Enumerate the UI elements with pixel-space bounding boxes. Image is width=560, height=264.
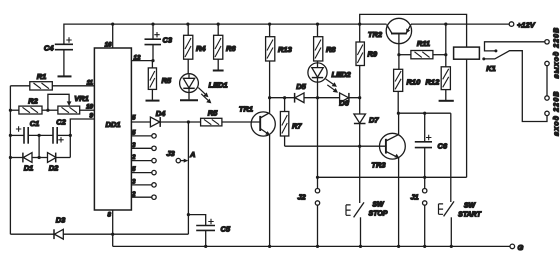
svg-text:R13: R13 [278, 45, 293, 54]
svg-text:выход 220В: выход 220В [553, 27, 560, 79]
wire left rail [9, 86, 11, 234]
transistor TR2 [368, 18, 412, 54]
relay coil K1 [454, 47, 496, 177]
wire R1 to left rail [10, 85, 29, 87]
relay K1 contact group [482, 42, 547, 122]
node rail junctions [111, 23, 447, 26]
svg-text:LED2: LED2 [332, 70, 352, 79]
wire output-input link [546, 66, 548, 96]
ground (C4) [58, 75, 72, 77]
svg-text:D5: D5 [296, 82, 306, 91]
diode D5 [295, 82, 307, 103]
resistor R9 [356, 24, 378, 98]
wire to SW START [450, 113, 452, 202]
wire C1C2 mid to D1D2 [38, 135, 40, 157]
svg-text:12: 12 [134, 55, 141, 62]
svg-text:J1: J1 [410, 193, 418, 202]
capacitor C5 [188, 215, 231, 247]
wire D4 to R5b [160, 121, 200, 123]
wire TR3 base net [285, 145, 386, 147]
svg-text:R7: R7 [292, 122, 302, 131]
wire TR2 bypass to K1 [360, 14, 467, 47]
svg-text:D7: D7 [369, 116, 379, 125]
resistor R12 [426, 67, 451, 100]
svg-text:R5: R5 [162, 76, 172, 85]
wire rail-R2 [10, 109, 19, 111]
svg-text:R8: R8 [326, 45, 336, 54]
switch SW STOP [346, 146, 388, 246]
svg-text:A: A [189, 150, 195, 159]
svg-text:D4: D4 [156, 109, 166, 118]
svg-text:G: G [518, 243, 524, 252]
svg-text:C6: C6 [438, 142, 448, 151]
resistor R13 [266, 24, 293, 61]
IC DD1 [94, 48, 131, 210]
svg-text:8: 8 [108, 212, 112, 219]
svg-text:16: 16 [105, 42, 112, 49]
capacitor C6 [415, 113, 448, 177]
wire TR3 emitter [398, 158, 400, 247]
resistor R5a [148, 61, 172, 100]
ground (R5a) [146, 100, 160, 102]
capacitor C3 [145, 24, 173, 61]
wire TR1 emitter [269, 135, 271, 247]
svg-text:5: 5 [132, 166, 136, 173]
resistor R10 [394, 55, 421, 113]
svg-text:C1: C1 [30, 119, 40, 128]
svg-text:D6: D6 [339, 99, 349, 108]
diode D6 [339, 93, 349, 108]
resistor R11 [399, 39, 446, 59]
svg-text:C3: C3 [163, 36, 173, 45]
svg-text:+12V: +12V [517, 21, 536, 30]
wire TR1 collector [269, 61, 271, 113]
svg-text:2: 2 [131, 154, 136, 161]
svg-text:R1: R1 [37, 72, 47, 81]
wire pin5 net [131, 121, 150, 123]
wire LED2 junction down to J2 [317, 98, 319, 189]
svg-text:K1: K1 [486, 64, 496, 73]
diode D4 [150, 109, 166, 127]
svg-text:C4: C4 [44, 44, 54, 53]
ground (LED1) [180, 99, 198, 101]
terminal input 220V top [545, 96, 549, 100]
wire R2-VR1 [42, 109, 58, 111]
svg-text:D3: D3 [56, 216, 66, 225]
resistor R4 [184, 24, 207, 59]
wire rail to R12 [445, 24, 447, 67]
potentiometer VR1 [48, 94, 89, 114]
capacitor C4 [44, 37, 73, 75]
capacitor C1 [10, 119, 39, 144]
terminal output 220V bottom [545, 61, 549, 65]
transistor TR1 [239, 105, 275, 137]
jumper J3 [166, 149, 188, 163]
diode D2 [48, 153, 71, 173]
svg-text:STOP: STOP [369, 211, 388, 218]
svg-text:J2: J2 [297, 193, 306, 202]
terminal input 220V bottom [545, 111, 549, 115]
diode D7 [354, 114, 380, 146]
svg-text:VR1: VR1 [74, 94, 89, 103]
resistor R7 [280, 98, 302, 147]
wire pin12 [131, 60, 153, 62]
wire D1-D2 [32, 157, 48, 159]
svg-text:C2: C2 [56, 118, 66, 127]
wire R5b to TR1 base [222, 121, 260, 123]
LED LED1 [180, 59, 228, 103]
svg-text:SW: SW [464, 203, 477, 210]
resistor R8 [314, 24, 337, 61]
svg-text:SW: SW [372, 202, 385, 209]
svg-text:R9: R9 [368, 50, 378, 59]
wire D3 net [10, 233, 188, 235]
wire D6 to D7 [359, 98, 361, 114]
wire ground rail [113, 245, 510, 247]
terminal output 220V top [545, 40, 549, 44]
resistor R6 [214, 24, 237, 70]
resistor R2 [19, 97, 42, 114]
diode D3 [54, 216, 66, 240]
svg-text:TR1: TR1 [239, 105, 253, 114]
svg-text:3: 3 [132, 142, 136, 149]
svg-text:START: START [458, 212, 481, 219]
wire pin10 [80, 109, 95, 111]
jumper J1 [410, 177, 427, 246]
svg-text:DD1: DD1 [105, 120, 120, 129]
wire +V rail left segment [64, 24, 387, 44]
svg-text:5: 5 [132, 130, 136, 137]
LED LED2 [308, 61, 352, 98]
svg-text:R12: R12 [426, 78, 441, 87]
svg-text:J3: J3 [166, 149, 175, 158]
svg-text:C5: C5 [221, 225, 231, 234]
svg-text:R5: R5 [208, 109, 218, 118]
wire pin11 [52, 85, 94, 87]
wire pin9 [70, 119, 94, 135]
svg-text:TR2: TR2 [368, 30, 383, 39]
svg-text:D1: D1 [24, 164, 34, 173]
svg-text:LED1: LED1 [209, 81, 228, 90]
svg-text:R2: R2 [28, 97, 38, 106]
svg-text:5: 5 [132, 115, 136, 122]
svg-text:9: 9 [90, 113, 94, 120]
ground (R12) [439, 100, 454, 102]
jumper J2 [297, 189, 319, 247]
wire TR3 collector [398, 113, 400, 134]
wire D5-D6 net [270, 97, 360, 99]
capacitor C2 [53, 118, 70, 144]
wire +V rail right segment [411, 23, 509, 25]
terminal +12V [509, 21, 536, 30]
svg-text:вход 220В: вход 220В [553, 90, 560, 136]
terminal G [510, 243, 524, 252]
svg-text:10: 10 [86, 104, 93, 111]
resistor R5b [201, 109, 222, 126]
DD1 right stub pins [131, 130, 156, 200]
transistor TR3 [371, 133, 405, 169]
svg-text:R11: R11 [417, 39, 430, 48]
wire TR3 collector net [398, 112, 451, 114]
resistor R1 [30, 72, 53, 90]
node A vertical [187, 122, 189, 234]
wire C1-C2 [28, 134, 53, 136]
svg-text:R6: R6 [226, 44, 236, 53]
ground (R6) [213, 70, 224, 72]
diode D1 [10, 153, 33, 173]
svg-text:3: 3 [132, 179, 136, 186]
wire pin16 [112, 24, 114, 48]
svg-text:R10: R10 [407, 78, 422, 87]
wire relay drive net [318, 176, 467, 178]
switch SW START [439, 201, 482, 246]
svg-text:D2: D2 [49, 164, 59, 173]
svg-text:TR3: TR3 [371, 161, 386, 170]
svg-text:R4: R4 [196, 44, 206, 53]
svg-text:2: 2 [131, 191, 136, 198]
wire C2 junction vertical [69, 135, 71, 157]
svg-text:11: 11 [87, 80, 94, 87]
wire pin8 [112, 210, 114, 246]
